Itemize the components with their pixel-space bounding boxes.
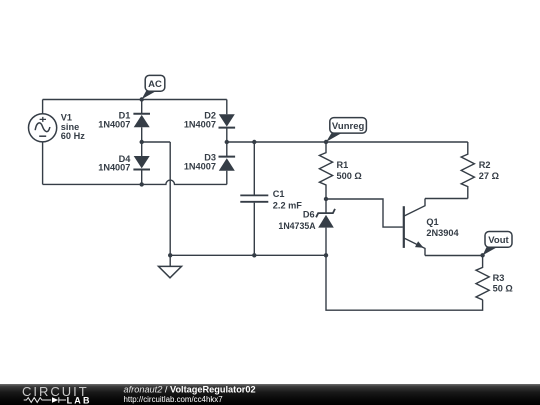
wire ground drop	[169, 142, 171, 255]
svg-text:R1: R1	[337, 160, 349, 170]
node Vunreg	[324, 140, 328, 144]
svg-text:R3: R3	[493, 273, 505, 283]
resistor R2 27 ohm	[461, 142, 499, 199]
node D2-D3	[225, 140, 229, 144]
svg-text:2.2 mF: 2.2 mF	[273, 200, 302, 210]
svg-text:LAB: LAB	[67, 395, 92, 405]
diode D2 1N4007	[184, 100, 235, 143]
svg-text:http://circuitlab.com/cc4hkx7: http://circuitlab.com/cc4hkx7	[124, 395, 223, 404]
svg-text:1N4007: 1N4007	[184, 120, 216, 130]
junction nodes	[140, 97, 485, 257]
svg-text:1N4007: 1N4007	[98, 162, 130, 172]
wire Vunreg rail to R2	[326, 141, 468, 143]
voltage source V1	[28, 114, 56, 142]
diode D4 1N4007	[98, 142, 150, 184]
wire ground rail to D6	[170, 254, 326, 256]
node R1 bottom	[324, 197, 328, 201]
capacitor C1 2.2 mF	[240, 142, 302, 255]
node D6 bottom	[324, 253, 328, 257]
node Vout flag	[483, 232, 512, 256]
footer logo CIRCUIT LAB	[22, 384, 92, 405]
svg-text:Q1: Q1	[426, 217, 438, 227]
transistor Q1 2N3904	[404, 199, 460, 256]
node ground tap	[168, 253, 172, 257]
node AC flag	[142, 75, 165, 99]
resistor R1 500 ohm	[319, 142, 361, 199]
wire base path R1 to Q1	[326, 199, 403, 227]
svg-text:50 Ω: 50 Ω	[493, 284, 513, 294]
wire mid-left link	[142, 141, 171, 143]
node D4 bottom	[140, 182, 144, 186]
svg-text:D6: D6	[303, 209, 315, 219]
resistor R3 50 ohm	[476, 255, 513, 299]
svg-text:Vout: Vout	[488, 235, 509, 246]
wire collector rail	[425, 198, 468, 200]
wire mid rail to C1 and Vunreg	[227, 141, 326, 143]
node Vunreg flag	[326, 118, 366, 142]
zener diode D6 1N4735A	[278, 199, 335, 255]
svg-text:60 Hz: 60 Hz	[61, 131, 85, 141]
svg-text:27 Ω: 27 Ω	[479, 171, 499, 181]
wire emitter rail to Vout	[425, 255, 483, 257]
wire bottom bridge rail with hop	[43, 180, 227, 184]
wire lower loop to R3	[326, 255, 483, 310]
node C1 bottom	[252, 253, 256, 257]
svg-text:Vunreg: Vunreg	[332, 121, 365, 132]
wire V1 top stub	[42, 100, 44, 114]
node D1-D4	[140, 140, 144, 144]
ground	[159, 255, 182, 277]
svg-text:AC: AC	[148, 79, 162, 90]
diode D3 1N4007	[184, 142, 235, 184]
footer bar	[0, 384, 540, 405]
svg-text:1N4735A: 1N4735A	[278, 221, 316, 231]
svg-text:500 Ω: 500 Ω	[337, 171, 362, 181]
svg-text:R2: R2	[479, 160, 491, 170]
wire top rail	[43, 99, 227, 101]
svg-text:C1: C1	[273, 189, 285, 199]
wire V1 bottom to rail	[42, 142, 44, 184]
node Vout	[480, 253, 484, 257]
svg-text:2N3904: 2N3904	[426, 228, 459, 238]
svg-text:1N4007: 1N4007	[98, 119, 130, 129]
svg-text:1N4007: 1N4007	[184, 162, 216, 172]
svg-text:V1: V1	[61, 112, 72, 122]
node C1 top	[252, 140, 256, 144]
node D1 top	[140, 97, 144, 101]
diode D1 1N4007	[98, 100, 150, 143]
svg-text:afronaut2 / VoltageRegulator02: afronaut2 / VoltageRegulator02	[124, 385, 256, 395]
